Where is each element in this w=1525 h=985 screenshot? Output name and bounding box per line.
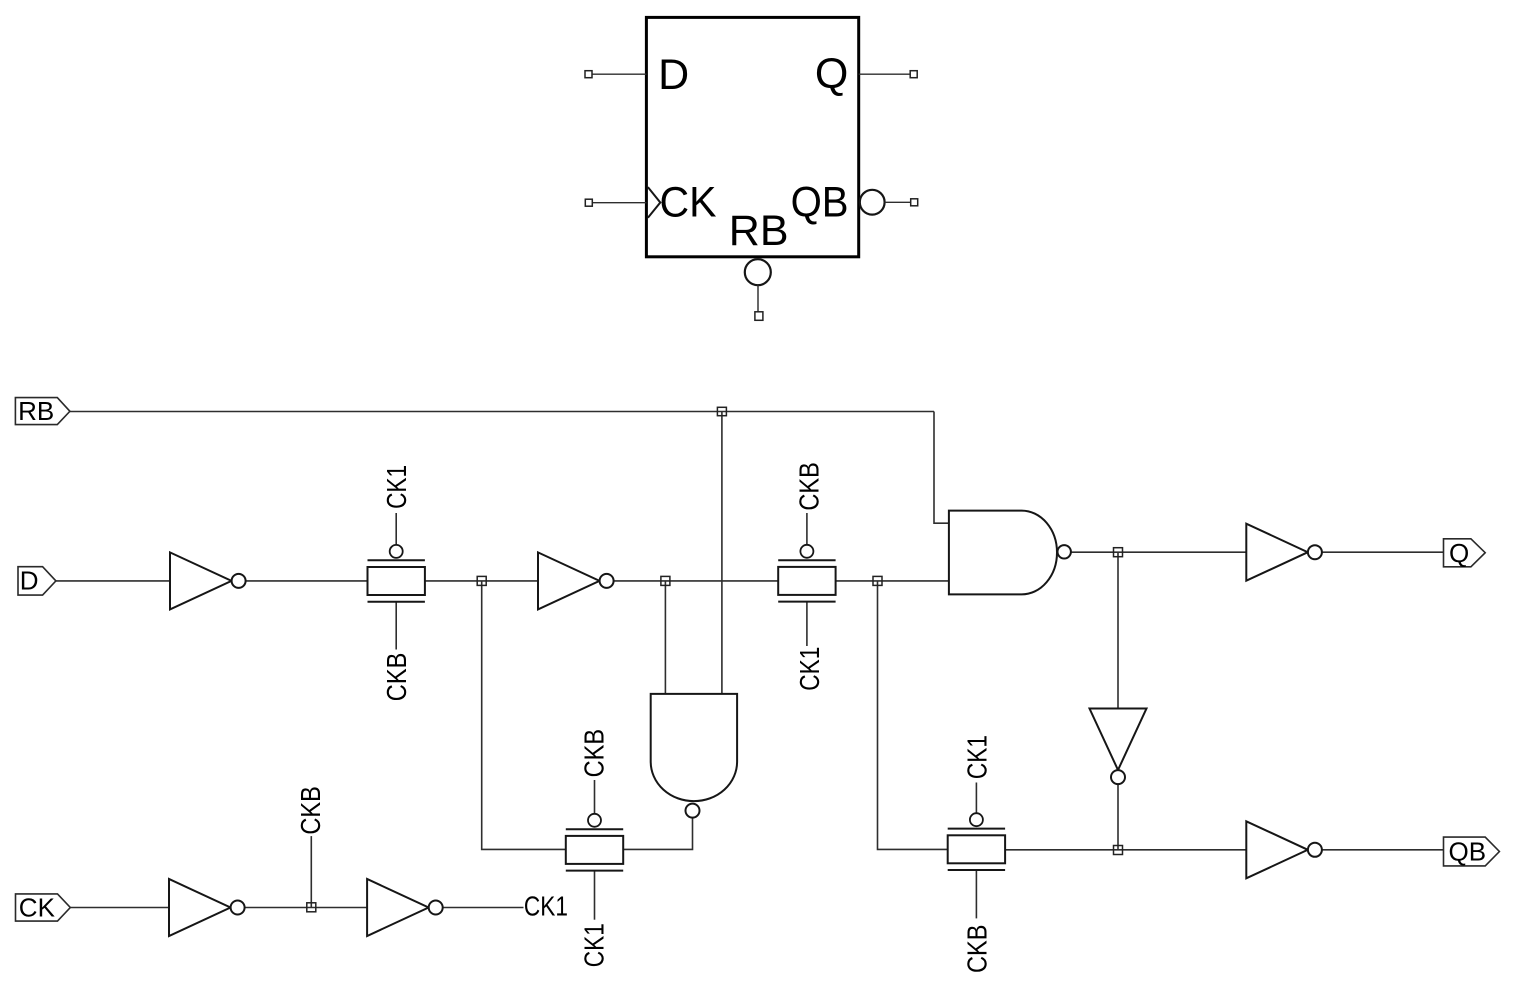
svg-text:QB: QB	[1449, 836, 1487, 866]
svg-text:CKB: CKB	[579, 729, 610, 778]
svg-text:CKB: CKB	[962, 925, 993, 974]
svg-text:CKB: CKB	[794, 462, 825, 511]
svg-text:RB: RB	[18, 396, 54, 426]
svg-text:D: D	[20, 565, 39, 595]
svg-text:CK1: CK1	[794, 647, 825, 691]
svg-text:CK1: CK1	[579, 923, 610, 967]
svg-text:CK1: CK1	[524, 890, 568, 921]
svg-text:QB: QB	[791, 179, 849, 227]
svg-text:CKB: CKB	[381, 653, 412, 702]
svg-text:CK: CK	[19, 892, 56, 922]
svg-text:CK1: CK1	[962, 735, 993, 779]
svg-text:Q: Q	[815, 50, 848, 98]
svg-text:CKB: CKB	[295, 786, 326, 835]
svg-text:RB: RB	[729, 207, 789, 255]
svg-text:CK: CK	[660, 178, 717, 226]
svg-text:CK1: CK1	[381, 465, 412, 509]
svg-text:D: D	[658, 51, 689, 99]
svg-text:Q: Q	[1449, 538, 1469, 568]
